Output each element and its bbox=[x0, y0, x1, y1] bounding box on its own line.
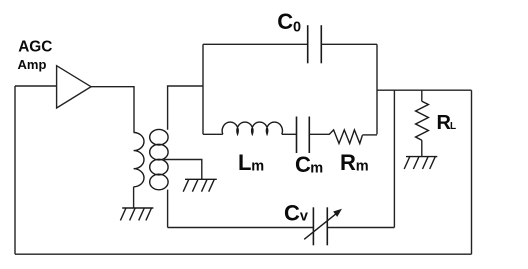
wire primary bottom lead bbox=[133, 187, 135, 208]
wire Cv rail left bbox=[168, 227, 314, 229]
svg-text:L: L bbox=[238, 150, 251, 175]
wire tank left edge bbox=[202, 44, 204, 134]
wire input to amp bbox=[15, 85, 57, 87]
wire Cv rail right bbox=[327, 227, 394, 229]
wire RL bottom lead bbox=[421, 140, 423, 156]
svg-text:0: 0 bbox=[293, 20, 301, 36]
variable capacitor Cv plates bbox=[313, 207, 327, 245]
inductor Lm bbox=[222, 122, 282, 134]
wire amp output bbox=[91, 87, 134, 133]
svg-text:C: C bbox=[277, 9, 293, 34]
capacitor C0 plates bbox=[308, 25, 322, 63]
variable capacitor Cv arrow bbox=[304, 213, 337, 239]
ground chassis at secondary tap bbox=[183, 179, 217, 191]
svg-text:L: L bbox=[450, 121, 456, 132]
ground chassis under primary bbox=[120, 208, 153, 220]
wire top right rail bbox=[377, 89, 472, 91]
wire middle rail a bbox=[203, 133, 223, 135]
wire secondary top lead bbox=[168, 86, 203, 130]
resistor RL zigzag bbox=[416, 101, 429, 140]
wire tap from secondary bbox=[164, 160, 202, 180]
wire left edge bbox=[14, 86, 16, 254]
wire middle rail b bbox=[282, 133, 297, 135]
transformer T1 secondary winding loops bbox=[150, 129, 168, 189]
wire middle rail d bbox=[362, 134, 377, 136]
op-amp U1 AGC amplifier triangle bbox=[57, 66, 91, 108]
wire secondary bottom lead bbox=[167, 190, 169, 228]
svg-text:m: m bbox=[251, 159, 264, 175]
wire tank right edge bbox=[376, 44, 378, 134]
svg-text:v: v bbox=[300, 209, 308, 225]
resistor Rm zigzag bbox=[329, 130, 362, 144]
svg-text:C: C bbox=[284, 200, 300, 225]
svg-text:Amp: Amp bbox=[18, 57, 47, 72]
wire bottom rail bbox=[15, 253, 472, 255]
svg-text:m: m bbox=[310, 161, 323, 177]
wire middle rail c bbox=[309, 133, 329, 135]
transformer T1 primary winding bbox=[134, 133, 144, 187]
svg-text:R: R bbox=[340, 150, 356, 175]
wire top rail right bbox=[321, 43, 377, 45]
wire top rail left bbox=[203, 43, 308, 45]
wire junction down to Cv rail bbox=[393, 90, 395, 227]
svg-text:AGC: AGC bbox=[18, 38, 52, 55]
svg-text:C: C bbox=[295, 152, 311, 177]
capacitor Cm plates bbox=[297, 117, 310, 154]
svg-text:m: m bbox=[356, 159, 369, 175]
wire RL top lead bbox=[421, 90, 423, 101]
wire right edge bbox=[471, 90, 473, 254]
ground chassis under RL bbox=[404, 157, 437, 169]
